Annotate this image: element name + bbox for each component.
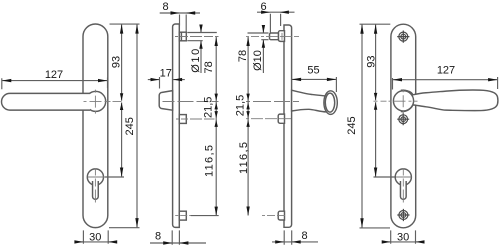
- top boss collar S3a: [278, 31, 284, 42]
- svg-text:245: 245: [346, 116, 358, 134]
- svg-text:Ø10: Ø10: [252, 50, 264, 71]
- cylinder crosshair: [88, 169, 105, 203]
- dim 8 bottom arrows fig3: [275, 240, 301, 243]
- bottom screw T4c: [397, 209, 409, 221]
- dim 8 top line: [160, 12, 200, 14]
- dim dia10 ext lines fig2: [187, 33, 217, 41]
- dim 127 line: [2, 80, 108, 82]
- dim 55 ext line: [335, 77, 337, 92]
- svg-text:78: 78: [237, 50, 249, 62]
- svg-text:21,5: 21,5: [235, 95, 247, 116]
- centerline handle axis: [163, 101, 219, 103]
- cylinder ext line fig4: [374, 176, 397, 178]
- svg-text:8: 8: [155, 231, 161, 243]
- centerline bottom boss: [175, 215, 192, 217]
- dim 93 arrows: [120, 24, 123, 101]
- svg-text:116,5: 116,5: [238, 142, 250, 174]
- dim 55 arrows: [292, 78, 337, 81]
- svg-text:Ø10: Ø10: [190, 49, 202, 73]
- dim 8 bottom ext lines fig2: [172, 230, 179, 244]
- top boss inner line: [180, 32, 182, 41]
- svg-text:55: 55: [307, 65, 319, 77]
- dim 127 arrows fig4: [393, 78, 498, 81]
- svg-text:127: 127: [45, 69, 63, 81]
- handle 55 H3 bell outer: [324, 91, 337, 115]
- dim dia10 arrows fig2: [199, 25, 202, 49]
- dim 55 line: [292, 78, 337, 80]
- boss centerline vertical fig4: [402, 89, 404, 113]
- dim 93 line: [121, 24, 123, 101]
- dim 17 line: [148, 79, 185, 81]
- cylinder ext line: [105, 176, 124, 178]
- euro cylinder C4: [395, 169, 411, 185]
- svg-text:93: 93: [365, 55, 377, 67]
- handle end-on H2: [159, 91, 172, 111]
- svg-text:17: 17: [160, 67, 172, 79]
- handle 55 H3 neck: [292, 90, 327, 112]
- dim 127 ext lines: [2, 78, 108, 90]
- dim 127 line fig4: [393, 79, 498, 81]
- top screw T4a: [397, 31, 409, 43]
- dim 93 arrows fig4: [374, 24, 377, 100]
- dim dia10 arrow line fig3: [262, 26, 264, 74]
- screw below boss T4b: [397, 113, 409, 125]
- svg-text:6: 6: [261, 1, 267, 13]
- dim 8 bottom line fig3: [272, 241, 318, 243]
- svg-text:245: 245: [124, 117, 136, 135]
- dim 245 line: [136, 24, 138, 228]
- centerline top boss fig3: [246, 33, 299, 40]
- dim PZ line: [121, 103, 123, 178]
- dim 30 arrows: [74, 240, 117, 243]
- dim 17 arrows: [151, 78, 183, 81]
- dim 30 ext lines: [83, 230, 108, 243]
- dim 30 line fig4: [383, 241, 424, 243]
- cylinder crosshair fig4: [396, 169, 412, 203]
- svg-text:116,5: 116,5: [204, 145, 216, 177]
- top boss S2a: [179, 32, 186, 41]
- svg-text:93: 93: [111, 56, 123, 68]
- mid boss S3b: [278, 114, 284, 123]
- dim dia10 arrow line fig2: [200, 25, 202, 74]
- dim 21,5 arrows fig3: [246, 102, 249, 118]
- svg-text:127: 127: [437, 65, 455, 77]
- dim PZ line fig4: [375, 102, 377, 177]
- dim PZ arrows fig4: [374, 102, 377, 177]
- dim 93 line fig4: [375, 24, 377, 100]
- centerline extension to dim junction: [108, 101, 122, 103]
- centerline bottom boss fig3: [262, 215, 285, 217]
- chain dim line fig2: [215, 37, 217, 216]
- dim 8 top ext lines: [180, 15, 187, 33]
- dim dia10 arrows fig3: [262, 25, 265, 48]
- dim 116,5 arrows fig2: [215, 120, 218, 216]
- centerline top boss: [175, 36, 219, 38]
- boss centerline horizontal: [84, 101, 108, 103]
- bottom ext line fig4: [360, 227, 391, 229]
- dim 8 top arrows: [171, 11, 196, 14]
- backplate P1: [83, 24, 108, 228]
- dim 30 ext lines fig4: [391, 230, 416, 243]
- side plate P2: [173, 24, 180, 227]
- bottom boss S2c: [179, 211, 186, 220]
- centerline mid boss: [176, 118, 215, 120]
- bottom ext line fig1: [109, 227, 140, 229]
- boss centerline horizontal fig4: [374, 100, 418, 102]
- boss centerline vertical: [94, 90, 96, 114]
- svg-text:30: 30: [397, 232, 409, 244]
- dim 78 arrows fig2: [215, 37, 218, 101]
- svg-text:8: 8: [162, 1, 168, 13]
- top ext line fig4: [360, 23, 391, 25]
- euro cylinder C1: [87, 169, 103, 185]
- dim dia10 ext lines fig3: [248, 33, 269, 40]
- keyway K1: [93, 181, 99, 199]
- svg-text:8: 8: [301, 230, 307, 242]
- dim 127 arrows: [2, 79, 108, 82]
- bottom boss S3c: [278, 211, 284, 220]
- lever L1: [2, 93, 90, 110]
- mid boss S2b: [179, 115, 186, 124]
- keyway K4: [400, 181, 406, 199]
- bottom boss ext line fig2: [191, 215, 219, 217]
- dim 8 bottom arrows fig2: [163, 241, 188, 244]
- side plate P3: [284, 25, 292, 227]
- dim 6 arrows: [261, 11, 289, 14]
- dim 8 bottom ext lines fig3: [284, 230, 292, 244]
- centerline mid boss fig3: [246, 118, 291, 120]
- handle boss B1: [86, 91, 106, 111]
- backplate P4: [391, 24, 416, 228]
- lever neck fillets: [402, 90, 413, 111]
- dim 116,5 arrows fig3: [246, 120, 249, 216]
- centerline handle axis fig3: [246, 101, 299, 103]
- dim 245 arrows fig4: [360, 24, 363, 228]
- dim 6 ext lines: [270, 14, 280, 33]
- chain dim line fig3: [247, 37, 249, 216]
- dim 8 bottom line fig2: [150, 242, 206, 244]
- dim 6 line: [257, 11, 295, 13]
- dim 21,5 arrows fig2: [215, 102, 218, 118]
- dim PZ arrows: [120, 103, 123, 178]
- top boss sleeve S3s: [270, 33, 279, 40]
- handle boss B4: [393, 91, 413, 111]
- top ext line fig1: [110, 23, 140, 25]
- svg-text:21,5: 21,5: [203, 97, 215, 118]
- dim 17 ext line: [159, 77, 161, 89]
- dim 78 arrows fig3: [246, 37, 249, 101]
- handle 55 H3 bell inner: [325, 93, 334, 112]
- dim 245 arrows: [135, 24, 138, 228]
- dim 30 arrows fig4: [382, 240, 425, 243]
- dim 127 ext lines fig4: [393, 77, 498, 90]
- svg-text:30: 30: [89, 232, 101, 244]
- dim 30 line: [76, 241, 116, 243]
- dim 245 line fig4: [361, 24, 363, 228]
- lever L4: [402, 90, 498, 111]
- svg-text:78: 78: [203, 61, 215, 73]
